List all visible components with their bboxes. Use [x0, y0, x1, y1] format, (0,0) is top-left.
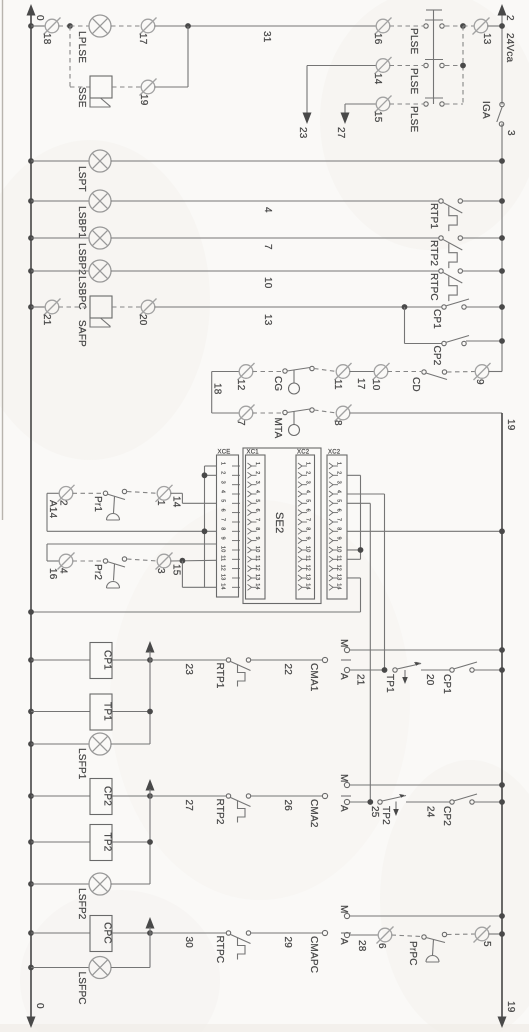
svg-text:0: 0 — [34, 1003, 45, 1009]
junction pin8 — [202, 528, 208, 534]
svg-text:XC2: XC2 — [328, 450, 341, 456]
dashed wire CG to terminal 11 — [314, 369, 337, 372]
wire rail0 to lamp LSFP1 — [31, 743, 89, 745]
wire contact to rail — [462, 237, 502, 239]
wire Pr2 to XCE pin11 — [171, 559, 217, 562]
svg-text:23: 23 — [183, 664, 194, 676]
wire rail0 to CP2 coil — [31, 795, 90, 797]
wire XC2 pin13 loop to rail 0 — [347, 577, 361, 579]
motor unit CMAPC terminal — [322, 930, 327, 935]
svg-text:8: 8 — [254, 527, 260, 530]
lamp LSBPC — [89, 260, 111, 282]
wire 5 to rail 19 — [489, 933, 503, 935]
wire Pr2 row left loop — [47, 560, 60, 562]
svg-text:Pr2: Pr2 — [92, 564, 103, 580]
svg-text:2: 2 — [305, 471, 311, 474]
dashed wire PrPC to terminal 5 — [447, 933, 476, 936]
contact CP2 upper — [442, 341, 446, 345]
junction rail19 M — [499, 913, 505, 919]
svg-text:LSFP1: LSFP1 — [76, 748, 87, 780]
svg-text:11: 11 — [332, 379, 343, 390]
wire rail0 to lamp LSPT — [31, 160, 89, 162]
svg-text:7: 7 — [254, 518, 260, 521]
wire M to rail 19 — [350, 915, 502, 917]
contact CP2 aux — [450, 800, 454, 804]
dashed wire to pushbutton Pr1 — [73, 492, 104, 494]
dashed wire to terminal 13 — [463, 25, 474, 27]
wire XCE pin2 stub — [205, 474, 217, 476]
svg-text:13: 13 — [336, 574, 342, 580]
svg-text:6: 6 — [220, 509, 226, 512]
wire XCE pin9 run — [47, 543, 217, 545]
svg-text:CPC: CPC — [102, 922, 113, 944]
branch down to pin14 wire — [181, 561, 183, 588]
svg-text:LSBPC: LSBPC — [76, 276, 87, 310]
relay coil CP1 box — [90, 643, 112, 679]
dashed branch down from row1 — [69, 26, 71, 87]
wire rail0 to lamp LSFP2 — [31, 883, 89, 885]
svg-text:10: 10 — [336, 546, 342, 552]
level contact TP1 — [393, 668, 397, 672]
wire XCE pin8 run to Pr1 loop — [47, 530, 217, 532]
lamp LSFP1 — [89, 733, 111, 755]
wire CP1 to rail — [466, 306, 502, 308]
wire 30 to timed contact RTPC — [150, 932, 226, 934]
wire 9 to rail end — [489, 371, 503, 373]
dashed wire Pr2 to terminal 3 — [127, 559, 158, 561]
dashed wire SSE to terminal 19 — [112, 86, 142, 88]
wire contact to rail — [462, 270, 502, 272]
dashed wire to interlink end — [445, 103, 463, 105]
terminal strip XCE box — [217, 455, 239, 597]
terminal 15 — [375, 96, 392, 113]
junction coil bus — [147, 657, 153, 663]
svg-text:SSE: SSE — [76, 87, 87, 108]
junction pin2 — [202, 472, 208, 478]
svg-text:3: 3 — [155, 568, 166, 574]
pilot lamp LSFPC row junction — [28, 965, 34, 971]
terminal 10 — [373, 363, 390, 380]
junction to SSE branch return — [185, 23, 191, 29]
wire 26 to motor unit CMA2 — [251, 795, 322, 797]
junction on rail end segment — [499, 338, 505, 344]
XCE pin ticks and numbers 1-14 — [232, 466, 240, 587]
wire rail0 to lamp LSFPC — [31, 967, 89, 969]
wire CP2 aux to rail 19 — [474, 801, 502, 803]
right supply rail 24Vca / node 2-3 (vertical) — [501, 14, 503, 105]
junction split CP1/CP2 — [402, 304, 408, 310]
timed contact RTP1 — [439, 199, 443, 203]
terminal 17 — [140, 18, 157, 35]
lamp LSFPC — [89, 957, 111, 979]
svg-text:LSPT: LSPT — [76, 166, 87, 192]
dashed wire Pr1 to terminal 1 — [127, 492, 158, 494]
svg-text:RTPC: RTPC — [428, 273, 439, 301]
junction rail19 M — [499, 647, 505, 653]
svg-text:19: 19 — [138, 94, 149, 106]
wire XC2 pin8 to rail 19 — [347, 530, 502, 532]
junction rail0 timer TP2 row — [28, 839, 34, 845]
svg-text:14: 14 — [171, 496, 182, 508]
terminal 12 — [238, 363, 255, 380]
svg-text:28: 28 — [356, 940, 367, 952]
dashed wire lamp to terminal 17 — [111, 25, 142, 27]
pear pushbutton PrPC — [422, 935, 426, 939]
wire A to contact TP2 — [350, 801, 368, 803]
svg-text:RTP2: RTP2 — [428, 240, 439, 266]
svg-text:30: 30 — [183, 937, 194, 949]
wire 22 to motor unit CMA1 — [251, 659, 322, 661]
svg-text:5: 5 — [220, 499, 226, 502]
svg-text:CMA1: CMA1 — [308, 663, 319, 692]
siren SSE box — [90, 76, 112, 98]
terminal M of CMA2 — [344, 782, 349, 787]
junction feed from XC2 pin4 — [382, 667, 388, 673]
svg-text:11: 11 — [305, 555, 311, 561]
svg-text:27: 27 — [335, 127, 346, 139]
dashed wire to PLSE pole 2 — [390, 65, 424, 67]
wire link to terminal 12 — [212, 371, 240, 373]
svg-text:5: 5 — [481, 941, 492, 947]
wire CP1 aux to rail 19 — [474, 669, 502, 671]
lamp LSBP2 — [89, 227, 111, 249]
junction rail0 timer TP1 row — [28, 709, 34, 715]
svg-text:17: 17 — [137, 33, 148, 45]
junction dashed link — [460, 23, 466, 29]
motor unit CMA1 terminal — [322, 657, 327, 662]
svg-text:2: 2 — [504, 15, 515, 21]
wire LSPT to rail — [111, 160, 502, 162]
PLSE bridge bar pole 2 — [425, 59, 443, 61]
lamp LSPT — [89, 150, 111, 172]
svg-text:PLSE: PLSE — [408, 28, 419, 55]
wire 29 to motor unit CMAPC — [251, 932, 322, 934]
vertical return link to row1 — [187, 26, 189, 87]
rail 24Vca top arrow — [498, 4, 507, 16]
svg-text:11: 11 — [336, 555, 342, 561]
wire A to terminal 6 — [350, 934, 379, 936]
terminal 3 / 15 — [156, 553, 173, 570]
level contact TP2 — [378, 800, 382, 804]
PLSE bridge bar pole 3 — [425, 97, 443, 99]
bus vertical with arrow — [146, 641, 155, 653]
wire XCE pin1 stub — [205, 465, 217, 467]
dashed wire to PLSE pole 3 — [390, 103, 424, 105]
svg-text:2: 2 — [254, 471, 260, 474]
connector XC1 box — [246, 455, 266, 599]
svg-text:8: 8 — [220, 527, 226, 530]
svg-text:19: 19 — [505, 1001, 516, 1013]
dashed wire SAFP to terminal 20 — [112, 306, 142, 308]
motor unit stub — [341, 932, 351, 934]
svg-text:LPLSE: LPLSE — [76, 31, 87, 63]
wire rail0 to lamp LSBP2 — [31, 237, 89, 239]
svg-text:9: 9 — [220, 537, 226, 540]
svg-text:CP1: CP1 — [102, 650, 113, 670]
svg-text:20: 20 — [137, 314, 148, 326]
svg-text:2: 2 — [58, 500, 69, 506]
svg-text:4: 4 — [305, 490, 311, 493]
wire lamp LSFP1 to bus — [111, 743, 150, 745]
svg-text:9: 9 — [305, 537, 311, 540]
wire 24 to contact CP2 — [406, 801, 450, 803]
wire link to terminal 7 — [212, 412, 240, 414]
svg-text:24Vca: 24Vca — [504, 33, 515, 63]
svg-text:LSFPC: LSFPC — [76, 972, 87, 1005]
contact CP1 upper — [442, 305, 446, 309]
timer TP1 box — [90, 694, 112, 730]
rail 19 (vertical, lower supply) — [501, 413, 503, 1018]
svg-text:6: 6 — [336, 509, 342, 512]
svg-text:3: 3 — [505, 130, 516, 136]
terminal 20 — [140, 299, 157, 316]
svg-text:9: 9 — [474, 379, 485, 385]
junction rail0 return — [28, 609, 34, 615]
svg-text:RTP1: RTP1 — [428, 203, 439, 229]
dashed wire branch to lamp LPLSE — [70, 25, 89, 27]
tap wire 27 vertical — [344, 104, 346, 114]
junction rail0 row LSBPC — [28, 268, 34, 274]
motor unit CMA2 terminal — [322, 793, 327, 798]
terminal 7 — [238, 405, 255, 422]
wire 23 to timed contact RTP1 — [150, 659, 226, 661]
svg-text:25: 25 — [369, 806, 380, 818]
svg-text:TP1: TP1 — [102, 702, 113, 721]
svg-text:CP2: CP2 — [431, 346, 442, 366]
svg-text:4: 4 — [262, 207, 273, 213]
svg-text:CP1: CP1 — [431, 309, 442, 329]
svg-text:CMAPC: CMAPC — [308, 936, 319, 973]
svg-text:SAFP: SAFP — [76, 320, 87, 347]
wire 27 to timed contact RTP2 — [150, 795, 226, 797]
svg-text:6: 6 — [305, 509, 311, 512]
junction on rail node3 — [499, 158, 505, 164]
svg-text:8: 8 — [332, 420, 343, 426]
wire rail0 to lamp LSBP1 — [31, 200, 89, 202]
wire lamp LSFPC to bus — [111, 967, 150, 969]
svg-text:4: 4 — [254, 490, 260, 493]
switch CD — [422, 370, 426, 374]
PLSE contact pole 2 — [424, 63, 428, 67]
float switch MTA — [283, 410, 287, 414]
junction feed from XC2 pin5 — [367, 799, 373, 805]
wire CP1 coil to bus — [112, 659, 150, 661]
scan edge shadow line — [2, 0, 4, 520]
relay coil CPC box — [90, 916, 112, 952]
junction timer bus — [147, 839, 153, 845]
svg-text:13: 13 — [481, 33, 492, 45]
svg-text:RTP2: RTP2 — [214, 799, 225, 825]
timer TP2 box — [90, 825, 112, 861]
svg-text:12: 12 — [336, 565, 342, 571]
motor unit stub — [341, 659, 351, 661]
svg-text:2: 2 — [220, 471, 226, 474]
svg-text:10: 10 — [254, 546, 260, 552]
wire 20 to contact CP1 — [421, 669, 450, 671]
wire corner row2 — [307, 65, 377, 67]
terminal 14 — [375, 57, 392, 74]
dashed wire to siren SSE — [70, 86, 90, 88]
svg-text:M: M — [338, 639, 349, 648]
wire contact to rail — [462, 200, 502, 202]
float switch CG — [283, 369, 287, 373]
svg-text:14: 14 — [305, 583, 311, 589]
svg-text:Pr1: Pr1 — [92, 496, 103, 512]
svg-text:8: 8 — [336, 527, 342, 530]
svg-text:0: 0 — [34, 15, 45, 21]
XC1 pin contacts and numbers 1-14 — [248, 463, 257, 590]
junction rail19 pin8 — [499, 528, 505, 534]
svg-text:11: 11 — [220, 555, 226, 561]
svg-text:18: 18 — [212, 383, 223, 395]
svg-text:10: 10 — [262, 277, 273, 289]
wire Pr1 to XCE pin5 jog — [171, 492, 183, 494]
svg-text:14: 14 — [254, 583, 260, 589]
svg-text:SE2: SE2 — [273, 512, 285, 533]
terminal 2 / A14 — [58, 485, 75, 502]
junction rail0 row LSBP2 — [28, 235, 34, 241]
junction rail19 A3 — [499, 931, 505, 937]
dashed interlink vertical — [462, 26, 464, 104]
rail 0 bottom arrow — [27, 1017, 36, 1029]
terminal 9 — [474, 363, 491, 380]
svg-text:TP2: TP2 — [102, 833, 113, 852]
svg-text:4: 4 — [336, 490, 342, 493]
svg-text:1: 1 — [305, 462, 311, 465]
dashed wire to float switch MTA — [253, 412, 284, 414]
svg-text:6: 6 — [376, 943, 387, 949]
svg-text:12: 12 — [305, 565, 311, 571]
XC2 plug pin contacts and numbers 1-14 — [298, 463, 307, 590]
junction rail0 CPC coil row — [28, 930, 34, 936]
wire CP2 coil to bus — [112, 795, 150, 797]
wire corner row3 — [345, 103, 377, 105]
svg-text:7: 7 — [305, 518, 311, 521]
svg-text:1: 1 — [254, 462, 260, 465]
dashed wire to pushbutton PrPC — [392, 935, 422, 937]
wire timer TP1 to bus — [112, 711, 150, 713]
wire 19 to return link — [155, 86, 189, 88]
link wire 18 between CG and MTA rows — [211, 372, 213, 414]
junction on rail — [499, 304, 505, 310]
svg-text:14: 14 — [336, 583, 342, 589]
svg-text:9: 9 — [254, 537, 260, 540]
pear pushbutton Pr2 — [103, 559, 107, 563]
wire 17 between terminals — [350, 371, 375, 373]
terminal 18 — [44, 18, 61, 35]
timed contact RTP1 — [226, 658, 230, 662]
relay coil CP2 box — [90, 779, 112, 815]
junction on rail node3 — [499, 268, 505, 274]
bus vertical with arrow — [146, 917, 155, 929]
svg-text:XCE: XCE — [218, 450, 231, 456]
PLSE pushbutton actuator rod — [433, 10, 435, 104]
wire rail0 to timer TP1 — [31, 711, 90, 713]
svg-text:15: 15 — [372, 111, 383, 123]
junction rail0 row LPLSE — [28, 23, 34, 29]
lamp LSFP2 — [89, 873, 111, 895]
svg-text:2: 2 — [336, 471, 342, 474]
terminal 11 — [335, 363, 352, 380]
svg-text:21: 21 — [41, 314, 52, 326]
svg-text:18: 18 — [41, 33, 52, 45]
svg-text:PLSE: PLSE — [408, 106, 419, 133]
tap arrow 27 — [341, 113, 350, 125]
svg-text:CP1: CP1 — [441, 674, 452, 694]
timed contact RTPC — [439, 269, 443, 273]
svg-text:LSBP1: LSBP1 — [76, 206, 87, 238]
XC2 strip pin contacts and numbers 1-14 — [329, 463, 338, 590]
wire A to contact TP1 — [350, 669, 382, 671]
svg-text:PrPC: PrPC — [407, 941, 418, 966]
svg-text:31: 31 — [261, 31, 272, 43]
junction rail0 row SAFP — [28, 304, 34, 310]
svg-text:20: 20 — [424, 674, 435, 686]
timed contact RTPC — [226, 931, 230, 935]
svg-text:CD: CD — [410, 377, 421, 392]
wire 13 to rail — [488, 25, 503, 27]
motor unit stub — [341, 795, 351, 797]
dashed wire MTA to terminal 8 — [314, 410, 337, 413]
junction pin10 jumper — [358, 547, 364, 553]
svg-text:7: 7 — [220, 518, 226, 521]
svg-text:XC2: XC2 — [297, 450, 310, 456]
tap wire 23 vertical — [306, 66, 308, 115]
junction coil bus — [147, 793, 153, 799]
svg-text:CMA2: CMA2 — [308, 799, 319, 828]
junction timer bus — [147, 709, 153, 715]
dashed wire to interlink — [445, 65, 463, 67]
left supply rail 0 (vertical, bottom rail in original orientation) — [30, 14, 32, 1018]
svg-text:15: 15 — [171, 564, 182, 576]
main switch IGA on rail — [500, 102, 504, 106]
svg-text:10: 10 — [305, 546, 311, 552]
dashed wire to siren SAFP — [59, 306, 91, 308]
wire XC2 pin5 to TP2 feed — [347, 502, 370, 504]
terminal A of CMAPC — [344, 932, 349, 937]
wire to contact CP2 upper — [405, 343, 443, 345]
svg-text:5: 5 — [254, 499, 260, 502]
terminal M of CMA1 — [344, 647, 349, 652]
svg-text:A: A — [338, 938, 349, 945]
terminal 1 / 14 — [156, 485, 173, 502]
wire rail0 to terminal 18 — [31, 25, 46, 27]
terminal A of CMA2 — [344, 799, 349, 804]
svg-text:11: 11 — [254, 555, 260, 561]
terminal strip XC2 box (right) — [327, 455, 347, 599]
wire rail0 to lamp LSBPC — [31, 270, 89, 272]
dashed wire CD to terminal 9 — [447, 371, 476, 374]
svg-text:12: 12 — [235, 379, 246, 391]
junction on rail 24Vca — [499, 23, 505, 29]
svg-text:RTPC: RTPC — [214, 936, 225, 964]
dashed wire to float switch CG — [253, 371, 284, 373]
siren SAFP flag — [90, 318, 111, 327]
svg-text:4: 4 — [220, 490, 226, 493]
svg-text:MTA: MTA — [272, 418, 283, 439]
wire M to rail 19 — [350, 649, 502, 651]
wire 13 long run — [155, 306, 443, 308]
svg-text:CP2: CP2 — [102, 786, 113, 806]
pilot lamp LSFP2 row junction — [28, 881, 34, 887]
wire XCE pin14 stub — [182, 586, 216, 588]
svg-text:A14: A14 — [47, 500, 58, 519]
wire rail0 to timer TP2 — [31, 841, 90, 843]
junction rail0 CP1 coil row — [28, 657, 34, 663]
svg-text:29: 29 — [282, 937, 293, 949]
wire Pr1 row left loop — [47, 492, 60, 494]
wire 4 lamp to contact — [111, 200, 439, 202]
